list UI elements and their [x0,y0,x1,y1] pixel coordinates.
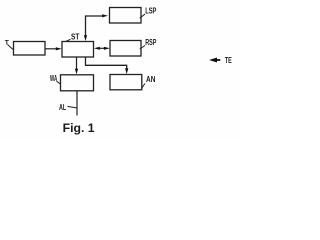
wire ST to AN [86,57,127,70]
leader line label AL [68,106,77,108]
svg-text:RSP: RSP [145,37,156,47]
block RSP [110,41,141,57]
wire elbow to LSP and down into ST [86,16,103,38]
svg-text:TE: TE [225,55,232,65]
arrow TE [209,58,217,63]
leader line label ST [66,39,71,41]
leader line label WA [57,81,61,84]
block LSP [110,8,142,24]
wire ST to WA [76,57,78,70]
leader line label LSP [140,14,145,18]
leader line label T [8,45,14,50]
wire WA output AL [76,91,78,116]
leader line label AN [142,84,145,89]
block ST [62,42,94,58]
svg-text:AN: AN [146,74,155,84]
block AN [110,75,142,90]
wire T to ST [45,48,57,50]
svg-text:ST: ST [71,32,79,42]
leader line label RSP [140,46,145,50]
svg-text:Fig. 1: Fig. 1 [63,121,95,135]
block WA [61,75,94,91]
svg-text:AL: AL [59,103,66,112]
wire ST to RSP double arrow [97,47,107,49]
svg-text:WA: WA [50,73,57,83]
block T [14,42,46,56]
svg-text:LSP: LSP [145,6,156,16]
